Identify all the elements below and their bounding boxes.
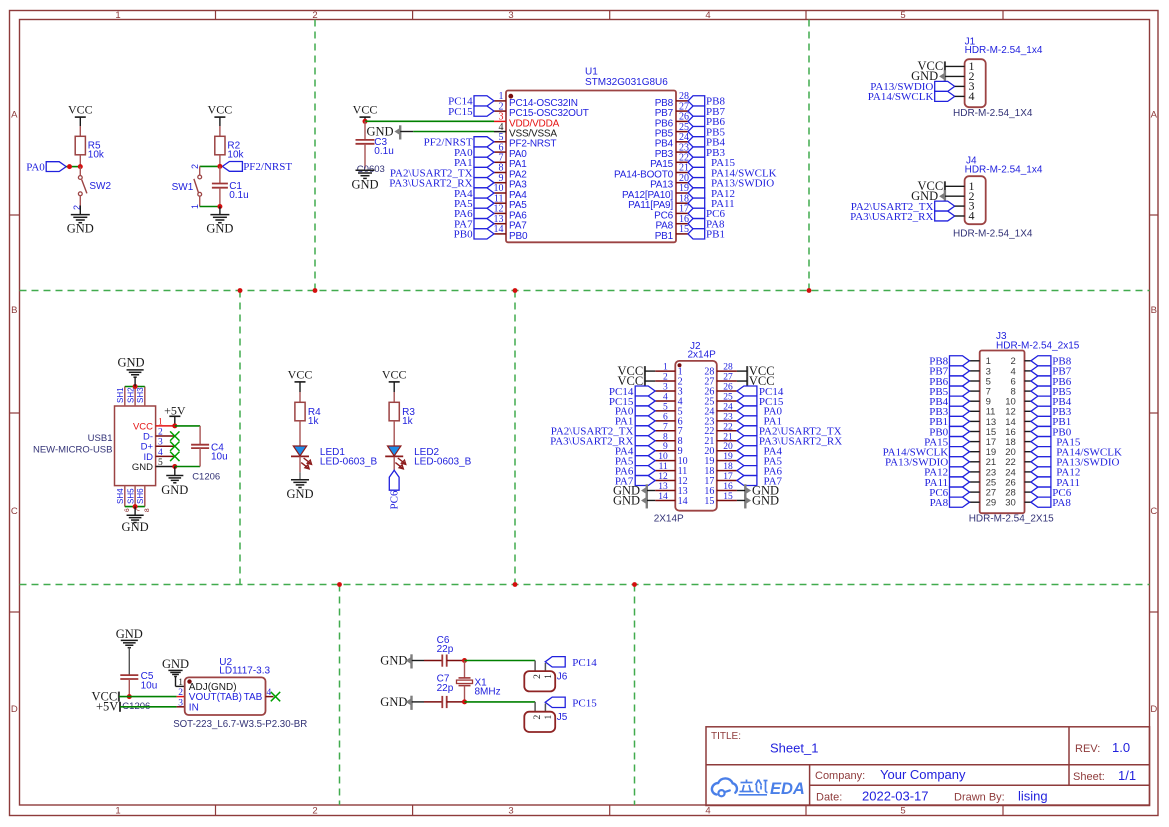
svg-text:17: 17: [723, 472, 733, 482]
svg-text:SH3: SH3: [136, 387, 145, 403]
J2 pin 26: [704, 383, 737, 398]
net label PA5 (J2 pin 10): [615, 455, 655, 467]
svg-text:GND: GND: [752, 493, 779, 507]
net label PB0 (U1 pin 14): [454, 229, 494, 241]
net label PA14/SWCLK (J1 pin4): [868, 91, 955, 103]
wire: [299, 421, 301, 447]
svg-text:PB1: PB1: [655, 231, 674, 242]
title block: [706, 727, 1150, 806]
J2 pin 17: [704, 472, 737, 487]
svg-text:GND: GND: [117, 356, 144, 370]
power flag GND (C7): [380, 695, 411, 710]
U1 pin 18 (PA11[PA9]): [628, 193, 689, 211]
J3 pins 7/8: [970, 387, 1031, 398]
net label PC6 (J3 pin 28): [1031, 487, 1072, 499]
svg-text:5: 5: [900, 10, 905, 21]
wire: [412, 701, 443, 703]
svg-text:10u: 10u: [141, 680, 158, 691]
wire: [945, 195, 965, 197]
svg-text:2: 2: [533, 714, 543, 719]
svg-text:2: 2: [190, 164, 200, 169]
svg-text:LED-0603_B: LED-0603_B: [320, 457, 378, 468]
net label PB8 (U1 pin 28): [688, 96, 725, 108]
svg-text:GND: GND: [162, 657, 189, 671]
svg-text:4: 4: [969, 209, 975, 223]
net label PA5 (J2 pin 19): [737, 455, 783, 467]
net label PC14 (U1 pin 1): [448, 96, 494, 108]
net label PB3 (U1 pin 23): [688, 147, 725, 159]
net label PB8 (J3 pin 1): [929, 356, 969, 368]
svg-text:LED-0603_B: LED-0603_B: [414, 457, 472, 468]
power flag VCC (J2 pin 27): [737, 374, 775, 388]
svg-text:26: 26: [723, 383, 733, 393]
crystal X1 8MHz: [457, 661, 501, 702]
J3 pins 19/20: [970, 447, 1031, 458]
net label PA3\USART2_RX (J4 pin4): [850, 211, 955, 223]
J2 pin 5: [655, 402, 682, 417]
capacitor C6: [437, 635, 465, 667]
wire shield bus bottom: [125, 506, 145, 508]
net label PA7 (J2 pin 12): [615, 475, 655, 487]
footprint label C0603: [357, 164, 385, 175]
svg-text:14: 14: [678, 496, 688, 507]
net label PA5 (U1 pin 11): [454, 198, 494, 210]
svg-text:4: 4: [663, 392, 668, 402]
net label PC6 (J3 pin 27): [929, 487, 969, 499]
wire: [393, 421, 395, 447]
svg-text:PA8: PA8: [1052, 497, 1071, 509]
svg-text:9: 9: [663, 442, 668, 452]
svg-text:30: 30: [1005, 498, 1016, 509]
J2 pin 3: [655, 383, 682, 398]
svg-text:PB0: PB0: [509, 231, 528, 242]
power flag VCC (R3): [382, 367, 407, 392]
svg-text:A: A: [1151, 110, 1158, 121]
svg-text:GND: GND: [286, 487, 313, 501]
net label PA0 (U1 pin 6): [454, 147, 494, 159]
svg-text:PF2/NRST: PF2/NRST: [243, 161, 292, 173]
junction node: [217, 204, 222, 209]
J3 pins 3/4: [970, 366, 1031, 377]
J3 pins 23/24: [970, 467, 1031, 478]
net label PA8 (U1 pin 16): [688, 219, 725, 231]
svg-text:3: 3: [178, 698, 183, 708]
USB1 shield pins SH4 SH5 SH6: [116, 486, 151, 512]
J2 pin 1: [655, 363, 682, 378]
net label PA13/SWDIO (U1 pin 20): [688, 178, 774, 190]
wire: [393, 392, 395, 402]
ground GND (USB pin5): [161, 467, 188, 497]
svg-text:3: 3: [508, 10, 513, 21]
J3 pins 11/12: [970, 407, 1031, 418]
wire: [945, 185, 965, 187]
net label PA7 (J2 pin 17): [737, 475, 783, 487]
J2 pin 7: [655, 422, 682, 437]
net label PB8 (J3 pin 2): [1031, 356, 1072, 368]
U1 pin 17 (PC6): [654, 204, 689, 222]
U1 pin 28 (PB8): [655, 91, 689, 109]
footprint label 2X14P (J2): [654, 513, 684, 524]
USB1 shield pins SH1 SH2 SH3: [116, 387, 145, 407]
net label PA3\USART2_RX (J2 pin 21): [737, 436, 842, 448]
svg-text:27: 27: [723, 373, 733, 383]
U1 pin 23 (PB3): [655, 142, 689, 160]
U1 pin 24 (PB4): [655, 132, 689, 150]
svg-text:SOT-223_L6.7-W3.5-P2.30-BR: SOT-223_L6.7-W3.5-P2.30-BR: [173, 719, 307, 730]
J2 pin 18: [704, 462, 737, 477]
J2 pin 9: [655, 442, 682, 457]
svg-text:1: 1: [544, 714, 554, 719]
U2 pin 4 no-connect: [266, 688, 281, 701]
resistor R3: [389, 402, 415, 427]
junction node: [462, 699, 467, 704]
U1 pin 6 (PA0): [494, 142, 527, 160]
svg-text:PC15: PC15: [572, 697, 597, 709]
net label PB5 (J3 pin 7): [929, 386, 969, 398]
svg-text:1.0: 1.0: [1112, 740, 1130, 755]
wire VCC to U1 pin3: [365, 120, 494, 122]
svg-text:SW1: SW1: [172, 182, 194, 193]
svg-text:SH6: SH6: [136, 488, 145, 504]
J2 pin 16: [704, 482, 737, 497]
J2 pin 19: [704, 452, 737, 467]
J3 pins 5/6: [970, 376, 1031, 387]
net label PA7 (U1 pin 13): [454, 219, 494, 231]
net label PB0 (J3 pin 16): [1031, 426, 1072, 438]
net label PB7 (J3 pin 3): [929, 366, 969, 378]
connector J5 body: [524, 712, 568, 732]
net label PB4 (U1 pin 24): [688, 137, 725, 149]
U1 pin 13 (PA7): [494, 214, 528, 232]
J3 pins 9/10: [970, 397, 1031, 408]
svg-text:C: C: [11, 506, 18, 517]
svg-text:1: 1: [178, 678, 183, 688]
svg-text:HDR-M-2.54_2X15: HDR-M-2.54_2X15: [969, 514, 1054, 525]
svg-text:PC15: PC15: [448, 106, 473, 118]
svg-text:REV:: REV:: [1075, 743, 1100, 755]
U1 pin 8 (PA2): [494, 163, 527, 181]
ground GND (C5): [116, 627, 143, 675]
svg-text:14: 14: [494, 224, 504, 235]
net label PA2\USART2_TX (U1 pin 8): [390, 167, 494, 179]
J2 pin 6: [655, 412, 682, 427]
svg-text:lising: lising: [1018, 789, 1048, 804]
U1 pin 22 (PA15): [650, 153, 689, 171]
J2 pin 8: [655, 432, 682, 447]
svg-text:0.1u: 0.1u: [229, 190, 248, 201]
junction node: [363, 119, 368, 124]
junction node: [462, 658, 467, 663]
wire: [393, 457, 395, 470]
capacitor C3: [356, 121, 394, 168]
wire: [219, 155, 221, 167]
power flag VCC (R5): [68, 103, 93, 127]
svg-text:2X14P: 2X14P: [654, 513, 684, 524]
svg-text:NEW-MICRO-USB: NEW-MICRO-USB: [33, 445, 113, 456]
junction node: [172, 423, 177, 469]
net label PA2\USART2_TX (J2 pin 7): [551, 426, 655, 438]
J2 pin 24: [704, 402, 737, 417]
svg-text:+5V: +5V: [96, 700, 118, 714]
wire to J5: [465, 702, 536, 712]
connector J1 HDR-M-2.54_1x4 body: [965, 36, 1043, 107]
wire to C4: [175, 426, 200, 467]
wire: [955, 85, 965, 87]
net label PB5 (U1 pin 25): [688, 126, 725, 138]
wire: [544, 704, 546, 712]
power flag GND (J1 pin2): [911, 69, 945, 84]
net label PC14 (J2 pin 3): [609, 386, 655, 398]
svg-text:2: 2: [312, 806, 317, 817]
net label PB6 (U1 pin 26): [688, 116, 725, 128]
connector J4 HDR-M-2.54_1x4 body: [965, 155, 1043, 224]
net label PA3\USART2_RX (J2 pin 8): [550, 436, 655, 448]
wire VCC to U2 pin2: [119, 696, 185, 698]
svg-text:STM32G031G8U6: STM32G031G8U6: [585, 77, 668, 88]
net label PA1 (U1 pin 7): [454, 157, 494, 169]
svg-text:Date:: Date:: [816, 792, 842, 804]
J2 pin 23: [704, 412, 737, 427]
svg-text:15: 15: [723, 492, 733, 502]
capacitor C7: [437, 674, 465, 708]
wire: [299, 392, 301, 402]
U1 pin 2 (PC15-OSC32OUT): [494, 101, 589, 119]
U1 pin 10 (PA4): [494, 183, 528, 201]
U1 pin 16 (PA8): [655, 214, 689, 232]
switch SW1: [172, 164, 202, 209]
svg-text:19: 19: [723, 452, 733, 462]
wire: [945, 65, 965, 67]
net label PB5 (J3 pin 8): [1031, 386, 1072, 398]
wire: [544, 663, 546, 671]
svg-text:10k: 10k: [227, 149, 244, 160]
U1 pin 1 (PC14-OSC32IN): [494, 91, 578, 109]
net label PA14/SWCLK (U1 pin 21): [688, 167, 777, 179]
net label PB7 (U1 pin 27): [688, 106, 725, 118]
svg-text:5: 5: [900, 806, 905, 817]
net label PA6 (J2 pin 11): [615, 465, 655, 477]
net label PA6 (U1 pin 12): [454, 208, 494, 220]
svg-text:28: 28: [723, 363, 733, 373]
J3 pins 29/30: [970, 498, 1031, 509]
net label PA0 (J2 pin 5): [615, 406, 655, 418]
svg-text:PA8: PA8: [930, 497, 949, 509]
svg-text:18: 18: [723, 462, 733, 472]
svg-text:SH4: SH4: [116, 488, 125, 504]
power flag GND (J2 pin 15): [737, 493, 779, 508]
svg-text:12: 12: [658, 472, 668, 482]
J2 pin 28: [704, 363, 737, 378]
U1 pin 5 (PF2-NRST): [494, 132, 556, 150]
svg-text:1: 1: [663, 363, 668, 373]
svg-text:15: 15: [704, 496, 714, 507]
J3 pins 15/16: [970, 427, 1031, 438]
resistor R4: [295, 402, 321, 427]
svg-text:PB0: PB0: [454, 229, 473, 241]
junction node: [127, 694, 132, 699]
net label PC15 (J2 pin 25): [737, 396, 784, 408]
svg-text:22p: 22p: [437, 644, 454, 655]
svg-text:J5: J5: [557, 712, 568, 723]
svg-text:11: 11: [659, 462, 668, 472]
svg-text:GND: GND: [116, 627, 143, 641]
svg-text:TAB: TAB: [244, 692, 263, 703]
J2 pin 10: [655, 452, 687, 467]
wire: [66, 166, 80, 168]
power flag +5V (U2 in): [96, 700, 120, 714]
svg-text:14: 14: [658, 492, 668, 502]
J2 pin 14: [655, 492, 687, 507]
U1 pin 25 (PB5): [655, 122, 689, 140]
svg-text:25: 25: [723, 392, 733, 402]
wire GND to U1 pin4: [400, 131, 494, 133]
svg-text:1k: 1k: [402, 416, 414, 427]
net label PA2\USART2_TX (J4 pin3): [851, 201, 955, 213]
svg-text:1: 1: [190, 204, 200, 209]
svg-text:Sheet_1: Sheet_1: [770, 741, 818, 756]
connector USB1 NEW-MICRO-USB body: [33, 406, 163, 486]
svg-text:PC6: PC6: [389, 490, 401, 509]
power flag +5V (USB VCC): [164, 403, 186, 426]
net label PA8 (J3 pin 30): [1031, 497, 1071, 509]
wire: [955, 215, 965, 217]
svg-text:4: 4: [705, 10, 710, 21]
svg-text:4: 4: [969, 89, 975, 103]
net label PA12 (U1 pin 19): [688, 188, 735, 200]
net label PA15 (U1 pin 22): [688, 157, 736, 169]
net label PB1 (J3 pin 13): [929, 416, 969, 428]
U1 pin 11 (PA5): [494, 193, 527, 211]
power flag VCC (J2 pin 2): [617, 374, 655, 388]
ground GND (USB bottom): [122, 507, 149, 534]
J2 pin 15: [704, 492, 737, 507]
svg-text:USB1: USB1: [88, 433, 113, 444]
wire: [200, 165, 220, 167]
ground GND (USB top): [117, 356, 144, 387]
power flag VCC (R2): [208, 103, 233, 127]
svg-text:7: 7: [663, 422, 668, 432]
wire: [79, 126, 81, 136]
capacitor C4: [191, 426, 228, 467]
connector J3 HDR-M-2.54_2x15 body: [980, 331, 1080, 513]
capacitor C5: [120, 671, 157, 696]
net label PA4 (J2 pin 9): [615, 446, 655, 458]
J2 pin 20: [704, 442, 737, 457]
svg-text:GND: GND: [206, 222, 233, 236]
svg-text:4: 4: [705, 806, 710, 817]
svg-text:SH5: SH5: [126, 488, 135, 504]
svg-text:VCC: VCC: [208, 103, 233, 117]
svg-text:1: 1: [115, 806, 120, 817]
wire: [955, 95, 965, 97]
svg-text:2022-03-17: 2022-03-17: [862, 789, 929, 804]
svg-text:1/1: 1/1: [1118, 768, 1136, 783]
svg-text:2: 2: [312, 10, 317, 21]
capacitor C1: [212, 166, 249, 206]
resistor R5: [75, 136, 105, 160]
svg-text:GND: GND: [132, 462, 153, 473]
wire shield bus top: [125, 386, 145, 388]
USB pins 2-4 stubs with no-connect X: [156, 431, 180, 461]
net label PA14/SWCLK (J3 pin 19): [883, 447, 970, 459]
svg-text:2: 2: [663, 373, 668, 383]
net label PA0: [26, 161, 66, 173]
net label PA4 (U1 pin 10): [454, 188, 494, 200]
power flag VCC (J1 pin1): [917, 59, 944, 73]
svg-text:10: 10: [658, 452, 668, 462]
net label PA15 (J3 pin 17): [924, 436, 969, 448]
regulator U2 LD1117-3.3 body: [178, 657, 270, 715]
U1 pin 20 (PA13): [650, 173, 689, 191]
ground GND (SW2): [67, 206, 94, 236]
ground GND (LED1): [286, 480, 313, 501]
svg-text:5: 5: [663, 402, 668, 412]
J2 pin 27: [704, 373, 737, 388]
EasyEDA logo: [712, 778, 805, 798]
ground GND (C3): [351, 170, 378, 191]
footprint label SOT-223 (U2): [173, 719, 307, 730]
svg-text:GND: GND: [351, 177, 378, 191]
svg-text:Drawn By:: Drawn By:: [954, 792, 1005, 804]
U1 pin 12 (PA6): [494, 204, 528, 222]
wire: [200, 206, 220, 208]
power flag VCC (J2 pin 28): [737, 364, 775, 378]
svg-text:1: 1: [544, 674, 554, 679]
svg-text:2x14P: 2x14P: [688, 350, 717, 361]
J2 pin 11: [655, 462, 687, 477]
net label PB4 (J3 pin 9): [929, 396, 969, 408]
net label PC14 (J6): [545, 657, 597, 669]
svg-text:VCC: VCC: [288, 367, 313, 381]
svg-text:SW2: SW2: [89, 181, 111, 192]
svg-text:SH2: SH2: [126, 387, 135, 403]
net label PC15 (U1 pin 2): [448, 106, 494, 118]
svg-text:8: 8: [144, 508, 151, 512]
footprint label C1206 (C5): [122, 701, 150, 712]
svg-text:1k: 1k: [308, 416, 320, 427]
svg-text:LD1117-3.3: LD1117-3.3: [219, 666, 270, 677]
power flag GND (J4 pin2): [911, 189, 945, 204]
svg-text:Sheet:: Sheet:: [1073, 771, 1105, 783]
junction node: [67, 164, 83, 169]
power flag GND (J2 pin 16): [737, 483, 779, 498]
svg-text:TITLE:: TITLE:: [711, 731, 741, 742]
net label PA12 (J3 pin 23): [924, 467, 969, 479]
net label PA2\USART2_TX (J2 pin 22): [737, 426, 842, 438]
svg-text:C: C: [1150, 506, 1157, 517]
net label PA1 (J2 pin 23): [737, 416, 782, 428]
wire USB pin5: [156, 466, 175, 468]
svg-text:21: 21: [723, 432, 733, 442]
power flag VCC (J2 pin 1): [617, 364, 655, 378]
net label PA8 (J3 pin 29): [930, 497, 970, 509]
footprint label C1206 (C4): [192, 471, 220, 482]
svg-text:24: 24: [723, 402, 733, 412]
power flag GND (J2 pin 14): [613, 493, 655, 508]
J3 pins 13/14: [970, 417, 1031, 428]
wire to J6: [465, 661, 536, 672]
junction node: [133, 384, 138, 389]
net label PB1 (U1 pin 15): [688, 229, 725, 241]
net label PA13/SWDIO (J3 pin 21): [885, 457, 969, 469]
net label PB4 (J3 pin 10): [1031, 396, 1072, 408]
ground GND (U2 ADJ): [162, 657, 189, 686]
svg-text:B: B: [1151, 305, 1157, 316]
net label PA11 (J3 pin 25): [925, 477, 970, 489]
net label PA14/SWCLK (J3 pin 20): [1031, 447, 1122, 459]
J3 pins 1/2: [970, 356, 1031, 367]
svg-text:GND: GND: [161, 483, 188, 497]
